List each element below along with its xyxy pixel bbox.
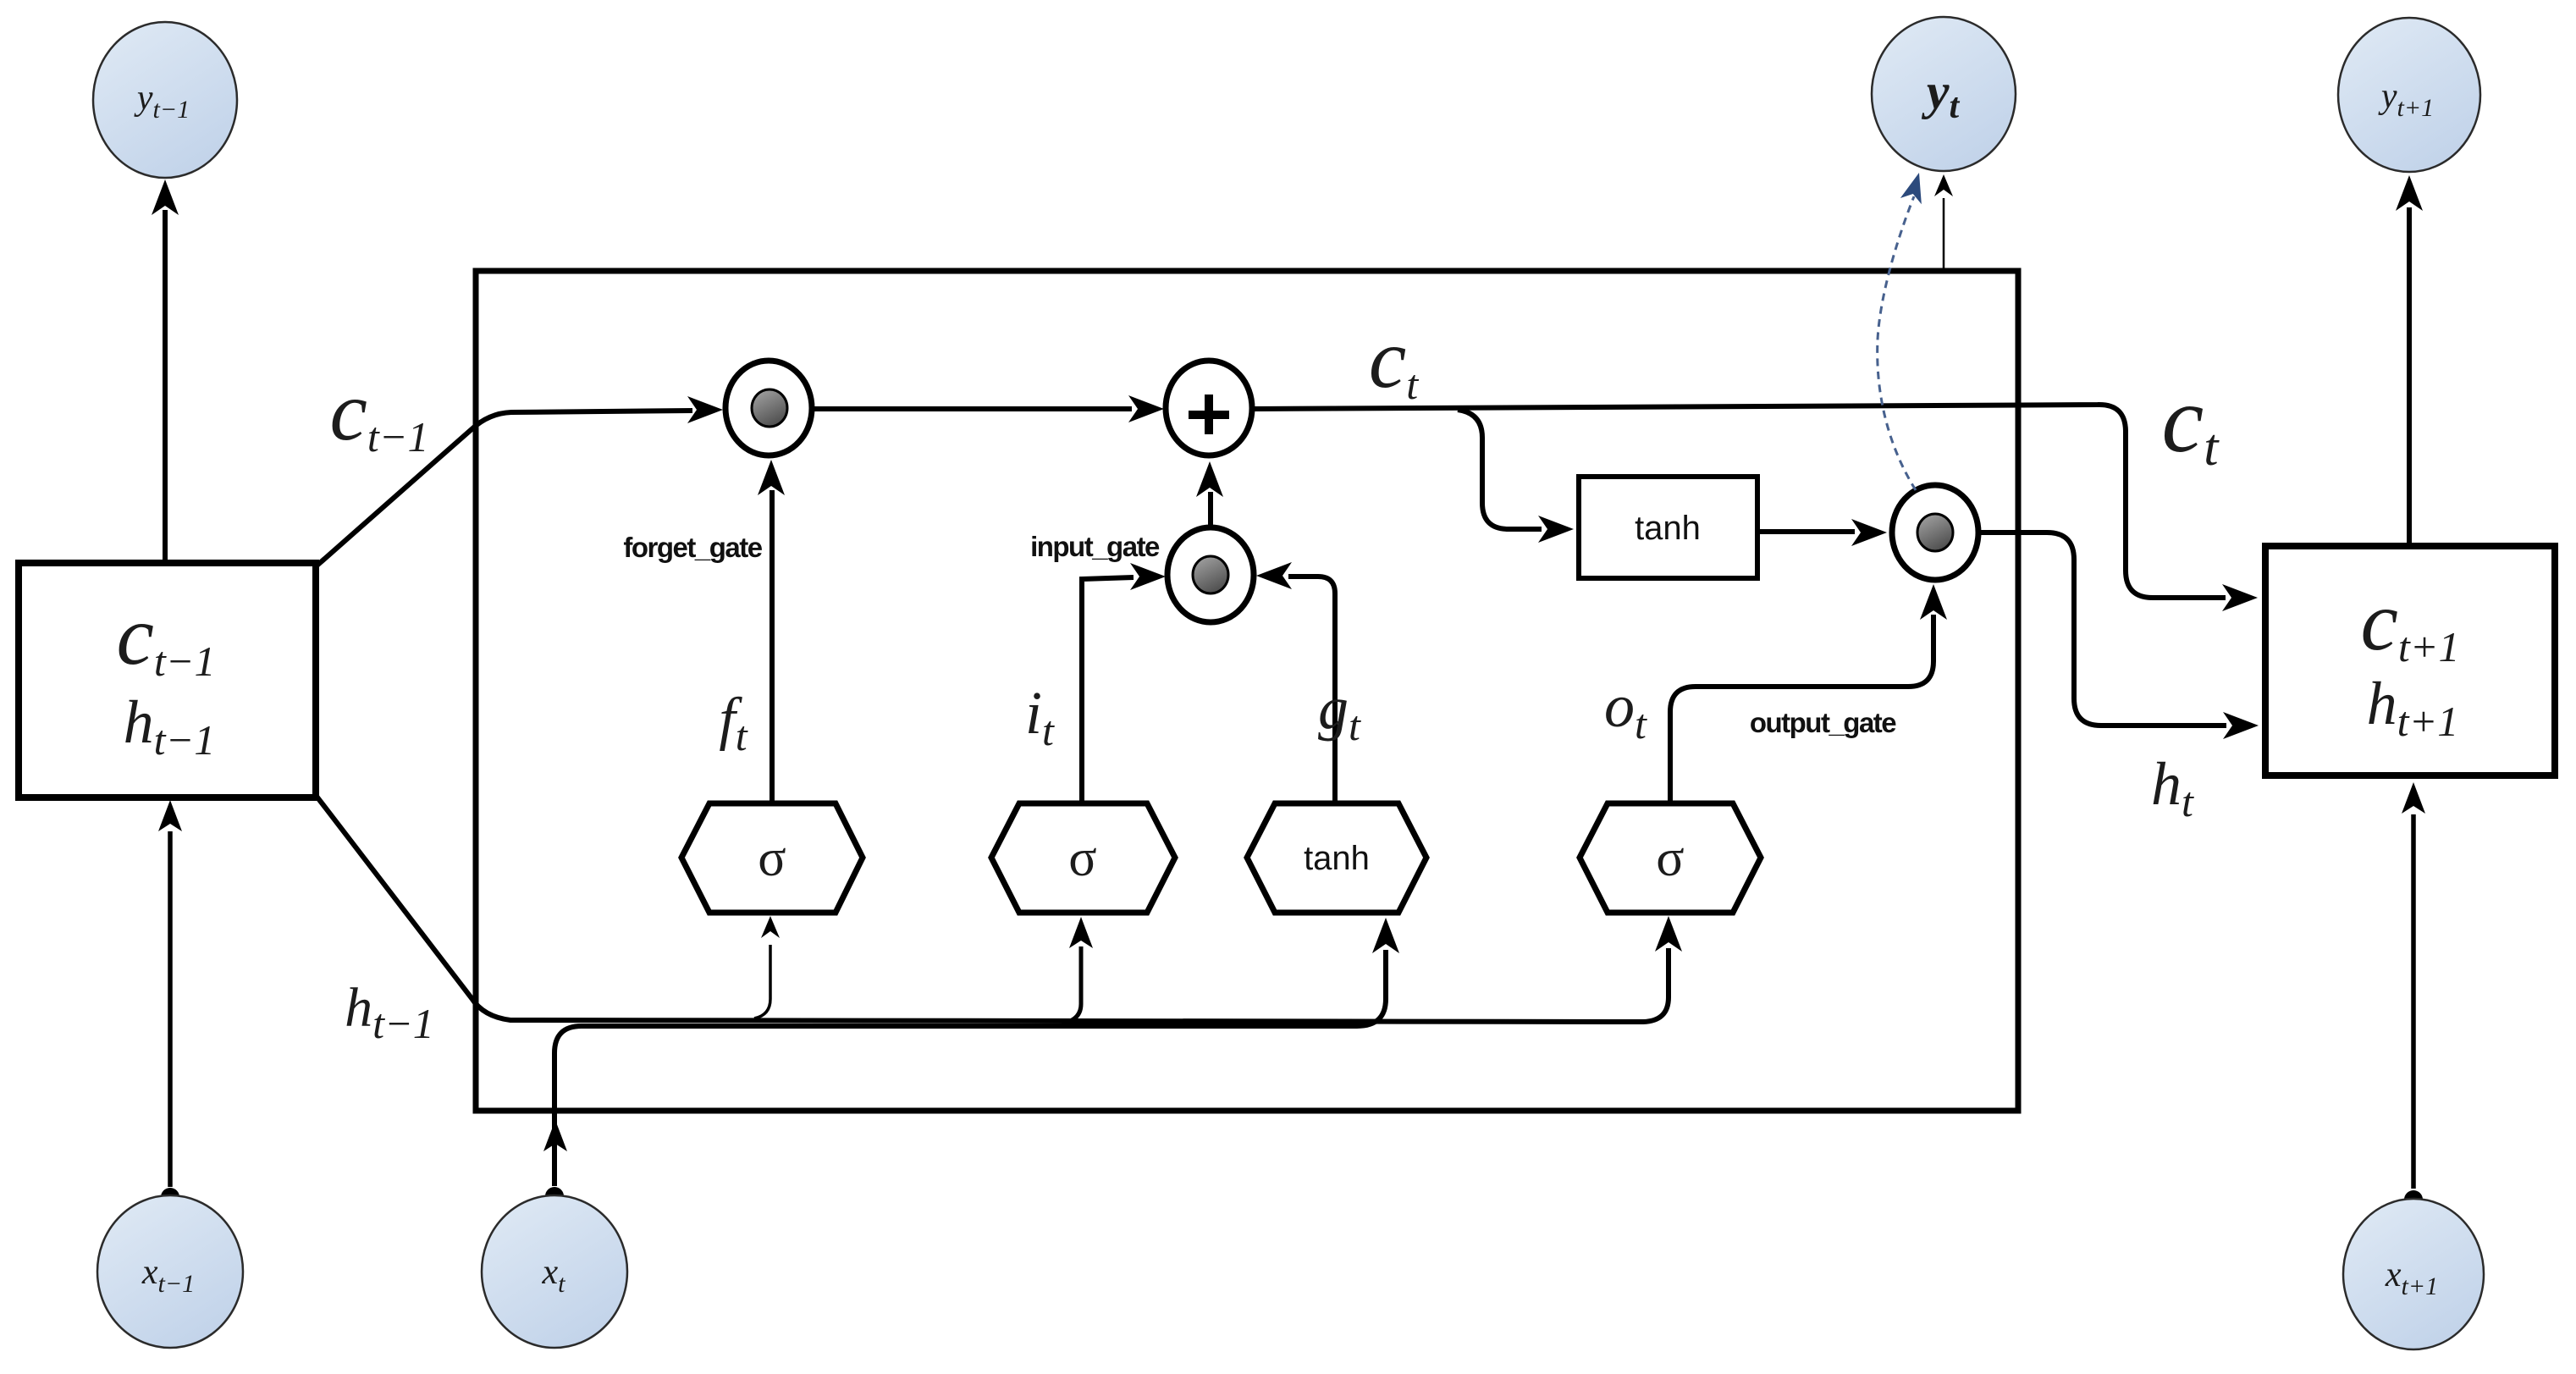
left state box C_{t-1} h_{t-1} (19, 563, 316, 797)
wire i_t from input sigma to input node (1082, 577, 1134, 804)
wire left box up to y_{t-1} (163, 210, 168, 562)
ellipse y_t (1872, 17, 2016, 171)
junction dot on x_{t+1} ellipse (2404, 1190, 2423, 1209)
wire tanh box to output multiply node (1757, 529, 1855, 534)
svg-text:forget_gate: forget_gate (623, 532, 762, 563)
tanh box (1579, 477, 1757, 578)
wire h_{t-1} from left box into cell and to output sigma (315, 794, 1669, 1022)
input gate sigma hexagon (991, 803, 1175, 913)
wire input node up to plus node (1208, 492, 1213, 527)
wire c_t from plus node out to right box (1252, 405, 2226, 598)
wire from forget node to plus node (812, 406, 1132, 411)
wire x_{t+1} up to right box (2411, 814, 2416, 1189)
g gate tanh hexagon (1247, 803, 1426, 913)
wire branch up to input sigma (1062, 946, 1081, 1024)
wire f_t from forget sigma to forget node (769, 490, 775, 803)
wire branch from c_t down into tanh box (1458, 410, 1542, 529)
wire o_t from output gate sigma to output node (1670, 615, 1933, 802)
svg-text:σ: σ (1068, 830, 1096, 887)
wire right box up to y_{t+1} (2407, 207, 2412, 544)
junction dot on x_t ellipse (545, 1187, 564, 1206)
ellipse y_{t-1} (93, 22, 237, 178)
junction dot on x_{t-1} ellipse (161, 1188, 179, 1206)
wire branch up to forget sigma (thin) (754, 945, 770, 1018)
wire c_{t-1} from left box to forget multiply node (314, 411, 692, 568)
wire x_t up into cell and to tanh hexagon (554, 950, 1386, 1186)
svg-text:σ: σ (1656, 830, 1684, 887)
wire h_t from output node to right box (1978, 532, 2226, 726)
wire dashed blue from output node to y_t (1878, 196, 1916, 490)
wire g_t from tanh hexagon to input node (1288, 577, 1335, 803)
forget multiply node (725, 361, 812, 455)
forget gate sigma hexagon (681, 803, 863, 913)
input multiply node (1167, 527, 1254, 622)
ellipse x_t (482, 1195, 627, 1348)
svg-text:input_gate: input_gate (1030, 531, 1160, 562)
wire thin solid from cell top to y_t (1943, 198, 1945, 269)
output gate sigma hexagon (1580, 803, 1761, 913)
svg-text:output_gate: output_gate (1750, 707, 1896, 738)
ellipse y_{t+1} (2338, 18, 2480, 172)
svg-text:tanh: tanh (1304, 840, 1370, 877)
ellipse x_{t-1} (97, 1195, 243, 1348)
svg-text:σ: σ (758, 830, 786, 887)
ellipse x_{t+1} (2343, 1199, 2484, 1349)
wire x_{t-1} up to left box (168, 831, 173, 1187)
LSTM cell big box (476, 271, 2018, 1111)
output multiply node (1892, 485, 1978, 580)
plus node (1166, 361, 1252, 455)
svg-text:tanh: tanh (1635, 510, 1701, 547)
right state box C_{t+1} h_{t+1} (2265, 546, 2555, 775)
